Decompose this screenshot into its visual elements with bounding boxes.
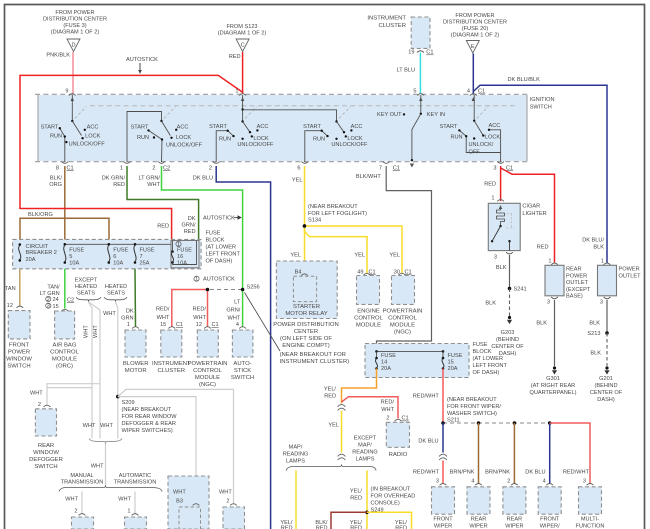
svg-text:FRONT: FRONT <box>433 517 453 523</box>
svg-text:20A: 20A <box>381 366 391 372</box>
svg-text:WHT: WHT <box>93 325 99 338</box>
svg-text:LT GRN: LT GRN <box>40 291 60 297</box>
wire YEL/RED from S249 right and down <box>367 512 412 529</box>
svg-text:BLK: BLK <box>496 265 507 271</box>
svg-text:(FUSE 20): (FUSE 20) <box>462 26 489 32</box>
svg-text:10A: 10A <box>177 261 187 267</box>
svg-text:DK GRN/: DK GRN/ <box>102 176 126 182</box>
wire YEL to map reading lamps split <box>341 411 343 453</box>
svg-text:WASHER SWITCH): WASHER SWITCH) <box>447 411 497 417</box>
svg-text:DK BLU: DK BLU <box>193 176 213 182</box>
mechanical link dashed line <box>90 105 518 107</box>
svg-text:BLOCK: BLOCK <box>473 349 492 355</box>
svg-text:CLUSTER: CLUSTER <box>379 23 407 29</box>
svg-text:LT: LT <box>234 299 241 305</box>
svg-text:19: 19 <box>408 50 414 56</box>
fuse 16 <box>171 250 174 253</box>
svg-text:PNK/BLK: PNK/BLK <box>46 53 70 59</box>
wire WHT S209 to B3 pin <box>118 397 196 505</box>
svg-text:TRANSMISSION: TRANSMISSION <box>114 480 157 486</box>
svg-text:C1: C1 <box>478 89 485 95</box>
svg-text:POWER: POWER <box>566 273 587 279</box>
svg-text:(FUSE 3): (FUSE 3) <box>63 23 86 29</box>
svg-text:KEY OUT: KEY OUT <box>377 112 402 118</box>
svg-text:FROM POWER: FROM POWER <box>455 13 494 19</box>
svg-text:WHT: WHT <box>147 182 160 188</box>
svg-text:(BEHIND: (BEHIND <box>496 337 519 343</box>
svg-text:B3: B3 <box>176 499 183 505</box>
svg-text:LEFT FRONT: LEFT FRONT <box>473 363 508 369</box>
svg-text:C1: C1 <box>212 322 219 328</box>
svg-text:MODULE: MODULE <box>356 322 381 328</box>
switch group 4 <box>335 120 337 122</box>
svg-text:READING: READING <box>283 452 309 458</box>
svg-text:LOCK: LOCK <box>85 133 101 139</box>
svg-text:CIGAR: CIGAR <box>522 204 540 210</box>
switch group 3 <box>242 95 244 122</box>
svg-text:WHT: WHT <box>219 490 232 496</box>
svg-text:FOR FRONT WIPER/: FOR FRONT WIPER/ <box>447 404 501 410</box>
wire YEL S134 to ECM pin 49 <box>305 226 368 274</box>
svg-text:WHT: WHT <box>381 407 394 413</box>
wire WHT merged <box>105 444 107 487</box>
svg-text:3: 3 <box>436 479 439 485</box>
svg-text:2: 2 <box>152 165 155 171</box>
svg-text:8: 8 <box>56 165 59 171</box>
svg-text:SWITCH: SWITCH <box>231 375 254 381</box>
svg-text:FUNCTION: FUNCTION <box>576 524 605 529</box>
svg-text:AUTOSTICK: AUTOSTICK <box>126 57 158 63</box>
svg-text:20A: 20A <box>26 257 36 263</box>
fuse 14 <box>375 350 378 353</box>
wire BLK/ORG branch horizontal to CB2 and fuse 6 <box>20 218 109 245</box>
label: FROM POWER DISTRIBUTION CENTER (FUSE 20) <box>443 13 507 39</box>
svg-text:FUSE: FUSE <box>381 353 396 359</box>
wire BRN/PNK to rear wiper 2 <box>513 423 515 484</box>
svg-text:SWITCH: SWITCH <box>530 105 552 111</box>
svg-text:OFF: OFF <box>469 150 481 156</box>
fuse bus bar 2 <box>377 350 444 352</box>
svg-text:2: 2 <box>386 416 389 422</box>
svg-text:LOCK: LOCK <box>485 135 501 141</box>
component air bag control module <box>61 309 68 311</box>
svg-text:3: 3 <box>583 479 586 485</box>
svg-text:49: 49 <box>357 269 363 275</box>
svg-text:1: 1 <box>548 258 551 264</box>
svg-text:WIPER: WIPER <box>469 524 487 529</box>
wire DK GRN fuse 7 to blower motor <box>134 269 137 327</box>
svg-text:1: 1 <box>127 509 130 515</box>
circled 1 above fuse 16 <box>176 241 181 246</box>
wire DK BLU to front wiper 2 <box>549 423 551 484</box>
pointer line from S256 to note <box>245 293 281 352</box>
svg-text:RUN: RUN <box>219 136 231 142</box>
svg-text:POWERTRAIN: POWERTRAIN <box>188 361 228 367</box>
power outlet pin 3, S213, ground G201 <box>604 297 611 299</box>
svg-text:MOTOR RELAY: MOTOR RELAY <box>285 311 327 317</box>
svg-text:AUTO-: AUTO- <box>233 361 251 367</box>
svg-text:S241: S241 <box>514 287 527 293</box>
svg-text:MODULE: MODULE <box>52 356 77 362</box>
svg-text:CONSOLE): CONSOLE) <box>371 501 400 507</box>
svg-text:FUSE: FUSE <box>473 342 488 348</box>
svg-text:MODULE: MODULE <box>390 322 415 328</box>
svg-text:BASE): BASE) <box>566 294 583 300</box>
mech dashed diagonal at pivot x=336.5 <box>339 107 351 119</box>
svg-text:IGNITION: IGNITION <box>530 97 555 103</box>
svg-text:(DIAGRAM 1 OF 2): (DIAGRAM 1 OF 2) <box>451 33 500 39</box>
svg-text:MODULE: MODULE <box>195 375 220 381</box>
svg-text:CENTER: CENTER <box>294 329 318 335</box>
svg-text:12: 12 <box>7 303 13 309</box>
merge brace to single WHT <box>89 439 122 444</box>
wire WHT automatic transmission branch <box>134 492 136 514</box>
svg-text:HEATED: HEATED <box>75 284 97 290</box>
wire DK BLU from ignition pin 2 down-right and down page left of relay <box>216 166 270 529</box>
svg-text:DK: DK <box>126 308 134 314</box>
svg-text:RUN: RUN <box>313 136 325 142</box>
svg-text:INSTRUMENT CLUSTER): INSTRUMENT CLUSTER) <box>280 359 350 365</box>
cigar lighter pin 3 and BLK to ground <box>506 252 513 254</box>
fuse block 1 box <box>13 239 202 268</box>
svg-text:6: 6 <box>113 254 116 260</box>
svg-text:GRN: GRN <box>121 315 133 321</box>
svg-text:BLK: BLK <box>590 350 601 356</box>
svg-text:UNLOCK/: UNLOCK/ <box>469 142 494 148</box>
svg-text:GRN/: GRN/ <box>182 222 196 228</box>
wire RED from triangle C to ignition pin 1 <box>242 52 244 94</box>
svg-text:7: 7 <box>379 165 382 171</box>
svg-text:C1: C1 <box>506 165 513 171</box>
svg-text:DK BLU: DK BLU <box>525 470 545 476</box>
svg-text:RADIO: RADIO <box>389 452 408 458</box>
wire YEL ignition pin 6 to S134 and starter relay <box>304 166 306 273</box>
connector triangle C <box>236 39 249 52</box>
svg-text:FUSE: FUSE <box>206 231 221 237</box>
svg-text:RED/WHT: RED/WHT <box>563 470 590 476</box>
svg-text:4: 4 <box>543 479 546 485</box>
svg-text:LEFT FRONT: LEFT FRONT <box>206 252 241 258</box>
key out / key in switch <box>420 95 422 114</box>
svg-text:BRN/PNK: BRN/PNK <box>450 470 475 476</box>
svg-text:AUTOSTICK: AUTOSTICK <box>203 216 235 222</box>
svg-text:ACC: ACC <box>488 123 500 129</box>
pin 19 C1 of instrument cluster <box>408 50 433 56</box>
mech dashed diagonal at pivot x=242.6 <box>245 107 257 119</box>
wire LT GRN/WHT from ignition pin 2 to autostick switch <box>162 166 243 327</box>
svg-text:3: 3 <box>494 255 497 261</box>
svg-text:25A: 25A <box>140 261 150 267</box>
svg-text:FUSE: FUSE <box>140 247 155 253</box>
svg-text:2: 2 <box>209 165 212 171</box>
svg-text:POWER: POWER <box>8 349 30 355</box>
svg-text:FROM S123: FROM S123 <box>226 24 257 30</box>
svg-text:WHT: WHT <box>103 311 116 317</box>
svg-text:20A: 20A <box>448 366 458 372</box>
ground G301 <box>553 366 556 369</box>
svg-text:15: 15 <box>53 304 59 310</box>
svg-text:RED: RED <box>229 54 241 60</box>
svg-text:14: 14 <box>381 360 387 366</box>
svg-text:YEL: YEL <box>389 253 400 259</box>
svg-text:12: 12 <box>196 322 202 328</box>
wire RED/WHT fuse 15 to S211 <box>442 369 444 424</box>
rear power outlet pin 3 to ground G301 <box>551 297 558 299</box>
svg-text:UNLOCK/OFF: UNLOCK/OFF <box>166 142 203 148</box>
wire YEL/RED map reading lamps to page bottom <box>295 471 297 529</box>
S211 dashed bus <box>443 422 550 424</box>
svg-text:(DIAGRAM 1 OF 2): (DIAGRAM 1 OF 2) <box>51 30 100 36</box>
svg-text:REAR: REAR <box>507 517 523 523</box>
svg-text:WHT: WHT <box>157 315 170 321</box>
svg-text:START: START <box>440 124 458 130</box>
svg-text:RED/: RED/ <box>156 307 170 313</box>
wire RED ignition pin 3 to cigar lighter <box>500 166 502 201</box>
svg-text:YEL: YEL <box>290 253 301 259</box>
svg-text:DASH): DASH) <box>597 397 615 403</box>
svg-text:(NEAR BREAKOUT: (NEAR BREAKOUT <box>308 204 358 210</box>
label: FROM S123 <box>218 24 267 37</box>
transmission split brace <box>59 486 162 492</box>
svg-text:7: 7 <box>140 254 143 260</box>
svg-text:KEY IN: KEY IN <box>427 112 445 118</box>
svg-text:RED: RED <box>537 244 549 250</box>
svg-text:S213: S213 <box>587 331 600 337</box>
wire BLK/WHT ignition pin 7 to fuse block 2 <box>377 166 432 352</box>
svg-text:STARTER: STARTER <box>293 304 320 310</box>
svg-text:2: 2 <box>74 509 77 515</box>
connector triangle E <box>466 41 479 54</box>
svg-text:BLK/WHT: BLK/WHT <box>356 174 381 180</box>
fuse 5 <box>64 243 67 246</box>
svg-text:EXCEPT: EXCEPT <box>75 278 98 284</box>
svg-text:HEATED: HEATED <box>105 284 127 290</box>
component instrument cluster (top) <box>367 16 430 49</box>
wire RED branch to rear power outlet <box>501 168 555 263</box>
svg-text:DK BLU/BLK: DK BLU/BLK <box>508 77 541 83</box>
svg-text:UNLOCK/OFF: UNLOCK/OFF <box>69 141 106 147</box>
svg-text:(ON LEFT SIDE OF: (ON LEFT SIDE OF <box>280 336 332 342</box>
splice S249 <box>365 511 369 515</box>
svg-text:10A: 10A <box>113 261 123 267</box>
wire DK BLU to front wiper with inline connector <box>442 423 444 453</box>
svg-text:RED: RED <box>350 496 362 502</box>
svg-text:C1: C1 <box>67 165 74 171</box>
svg-text:S209: S209 <box>122 400 135 406</box>
svg-text:(NGC): (NGC) <box>394 329 411 335</box>
connector triangle D <box>67 39 80 52</box>
fuse bus bar <box>65 243 171 245</box>
bottom pin connector glyphs <box>61 162 68 164</box>
svg-text:WHT: WHT <box>65 497 78 503</box>
svg-text:FUSE: FUSE <box>177 247 192 253</box>
switch group 2 <box>127 112 162 163</box>
svg-text:MOTOR: MOTOR <box>125 368 147 374</box>
svg-text:(IN BREAKOUT: (IN BREAKOUT <box>371 487 411 493</box>
svg-text:ACC: ACC <box>351 124 363 130</box>
svg-text:OUTLET: OUTLET <box>566 280 589 286</box>
svg-text:(ORC): (ORC) <box>56 363 73 369</box>
svg-text:YEL/: YEL/ <box>350 489 363 495</box>
top pin entry arcs and arrows <box>69 94 76 96</box>
svg-text:(NGC): (NGC) <box>199 382 216 388</box>
svg-text:4: 4 <box>467 89 470 95</box>
svg-text:BLK: BLK <box>589 320 600 326</box>
svg-text:RED/: RED/ <box>193 307 207 313</box>
wire YEL/RED (orange) from fuse 14 to inline connector <box>342 369 377 404</box>
svg-text:CONTROL: CONTROL <box>354 315 384 321</box>
wire YEL/RED except branch to S249 <box>366 471 368 529</box>
svg-text:START: START <box>303 124 321 130</box>
svg-text:YEL: YEL <box>354 253 365 259</box>
fuse block 2 box <box>365 344 469 378</box>
wire RED/WHT branch to radio <box>342 397 399 419</box>
svg-text:ORG: ORG <box>49 182 62 188</box>
svg-text:FUSE: FUSE <box>113 247 128 253</box>
svg-text:(NEAR BREAKOUT FOR: (NEAR BREAKOUT FOR <box>280 352 346 358</box>
svg-text:S134: S134 <box>308 218 321 224</box>
svg-text:RED: RED <box>281 526 293 529</box>
svg-text:CENTER OF: CENTER OF <box>590 390 623 396</box>
svg-text:C: C <box>241 43 245 49</box>
svg-text:POWER DISTRIBUTION: POWER DISTRIBUTION <box>273 322 338 328</box>
svg-text:1: 1 <box>120 165 123 171</box>
circuit breaker 2 <box>19 243 22 246</box>
svg-text:TAN/: TAN/ <box>47 284 60 290</box>
svg-text:C2: C2 <box>67 297 74 303</box>
svg-text:CLUSTER: CLUSTER <box>158 368 186 374</box>
svg-text:AIR BAG: AIR BAG <box>53 342 77 348</box>
svg-text:DEFOGGER & REAR: DEFOGGER & REAR <box>122 421 176 427</box>
svg-text:RED: RED <box>157 223 169 229</box>
svg-text:WHT: WHT <box>228 316 241 322</box>
svg-text:SEATS: SEATS <box>77 291 95 297</box>
svg-text:RED: RED <box>113 182 125 188</box>
svg-text:RED: RED <box>395 526 407 529</box>
svg-text:DASH): DASH) <box>499 351 517 357</box>
wire RED/WHT to multi-function switch <box>550 423 590 484</box>
wire RED from autostick loop into fuse 16 <box>20 209 172 241</box>
wire WHT manual transmission branch <box>81 492 83 514</box>
svg-text:READING: READING <box>352 449 378 455</box>
svg-text:ACC: ACC <box>257 124 269 130</box>
svg-text:MAP/: MAP/ <box>358 442 372 448</box>
svg-text:INSTRUMENT: INSTRUMENT <box>152 361 191 367</box>
svg-text:WHT: WHT <box>84 325 90 338</box>
svg-text:TRANSMISSION: TRANSMISSION <box>61 480 104 486</box>
svg-text:CONTROL: CONTROL <box>388 315 418 321</box>
ground G203 <box>508 316 511 319</box>
fuse 7 <box>134 243 137 246</box>
wire key-feed horizontal <box>243 110 337 122</box>
svg-text:WHT: WHT <box>83 423 96 429</box>
svg-text:FRONT: FRONT <box>540 517 560 523</box>
svg-text:DK BLU/: DK BLU/ <box>582 238 604 244</box>
svg-text:WIPER: WIPER <box>505 524 523 529</box>
svg-text:E: E <box>471 44 475 50</box>
svg-text:C1: C1 <box>393 165 400 171</box>
splice S256 red branch to cluster and PCM <box>172 290 208 327</box>
svg-text:2: 2 <box>38 402 41 408</box>
cigar lighter element and contacts <box>499 205 503 209</box>
svg-text:WINDOW: WINDOW <box>33 450 59 456</box>
svg-text:MAP/: MAP/ <box>289 444 303 450</box>
svg-text:REAR: REAR <box>38 443 54 449</box>
svg-text:DK: DK <box>188 216 196 222</box>
svg-text:CENTER OF: CENTER OF <box>491 344 524 350</box>
svg-text:RED/: RED/ <box>381 400 395 406</box>
svg-text:DEFOGGER: DEFOGGER <box>29 457 63 463</box>
svg-text:LOCK: LOCK <box>347 136 363 142</box>
svg-text:AUTOMATIC: AUTOMATIC <box>119 473 151 479</box>
mech dashed diagonal at pivot x=474.2 <box>477 107 489 119</box>
svg-text:BLK: BLK <box>485 300 496 306</box>
svg-text:RED: RED <box>316 526 328 529</box>
svg-text:YEL: YEL <box>292 177 303 183</box>
svg-text:LAMPS: LAMPS <box>356 456 375 462</box>
svg-text:WHT: WHT <box>173 490 186 496</box>
svg-text:MULTI-: MULTI- <box>581 517 599 523</box>
svg-text:RED/WHT: RED/WHT <box>413 394 440 400</box>
svg-text:1: 1 <box>601 258 604 264</box>
svg-text:AUTOSTICK: AUTOSTICK <box>203 277 235 283</box>
svg-text:C2: C2 <box>163 165 170 171</box>
svg-text:G301: G301 <box>546 376 560 382</box>
svg-text:1: 1 <box>235 89 238 95</box>
svg-text:OF DASH): OF DASH) <box>473 370 500 376</box>
component B3 box (in larger module) <box>168 476 209 529</box>
svg-text:LOCK: LOCK <box>253 136 269 142</box>
svg-text:(AT RIGHT REAR: (AT RIGHT REAR <box>531 383 575 389</box>
svg-text:5: 5 <box>413 89 416 95</box>
svg-text:1: 1 <box>127 322 130 328</box>
svg-text:WIPER/: WIPER/ <box>540 524 560 529</box>
svg-text:LOCK: LOCK <box>176 135 192 141</box>
unused pin arrow below box at x=412 <box>410 164 414 168</box>
svg-text:4: 4 <box>471 479 474 485</box>
svg-text:FUSE: FUSE <box>69 247 84 253</box>
svg-text:3: 3 <box>600 300 603 306</box>
svg-text:RED/WHT: RED/WHT <box>413 470 440 476</box>
label AUTOSTICK with arrow <box>126 57 158 74</box>
fuse 16 solid sub-box <box>171 241 199 268</box>
component front power window switch <box>16 306 23 308</box>
svg-text:POWERTRAIN: POWERTRAIN <box>383 308 423 314</box>
svg-text:(BEHIND: (BEHIND <box>595 383 618 389</box>
svg-text:FOR OVERHEAD: FOR OVERHEAD <box>371 494 416 500</box>
component starter motor relay in PDC <box>276 261 337 319</box>
label circled-1 AUTOSTICK upper <box>194 276 199 281</box>
svg-text:C1: C1 <box>176 322 183 328</box>
svg-text:2: 2 <box>507 479 510 485</box>
svg-text:WHT: WHT <box>30 391 43 397</box>
svg-text:STICK: STICK <box>234 368 251 374</box>
svg-text:15: 15 <box>448 360 454 366</box>
svg-text:BLK/: BLK/ <box>50 176 63 182</box>
svg-text:SWITCH: SWITCH <box>34 464 57 470</box>
svg-text:2: 2 <box>47 297 50 303</box>
wire WHT heated seats <box>116 302 118 439</box>
svg-text:WIPER: WIPER <box>434 524 452 529</box>
mech dashed diagonal at pivot x=161.5 <box>164 107 176 119</box>
svg-text:ACC: ACC <box>177 124 189 130</box>
svg-text:WINDOW: WINDOW <box>6 356 32 362</box>
svg-text:RUN: RUN <box>450 135 462 141</box>
svg-text:UNLOCK/OFF: UNLOCK/OFF <box>237 142 274 148</box>
wire WHT pair below except-heated-seats brace <box>89 302 93 439</box>
svg-text:RUN: RUN <box>137 135 149 141</box>
svg-text:1: 1 <box>177 242 180 248</box>
